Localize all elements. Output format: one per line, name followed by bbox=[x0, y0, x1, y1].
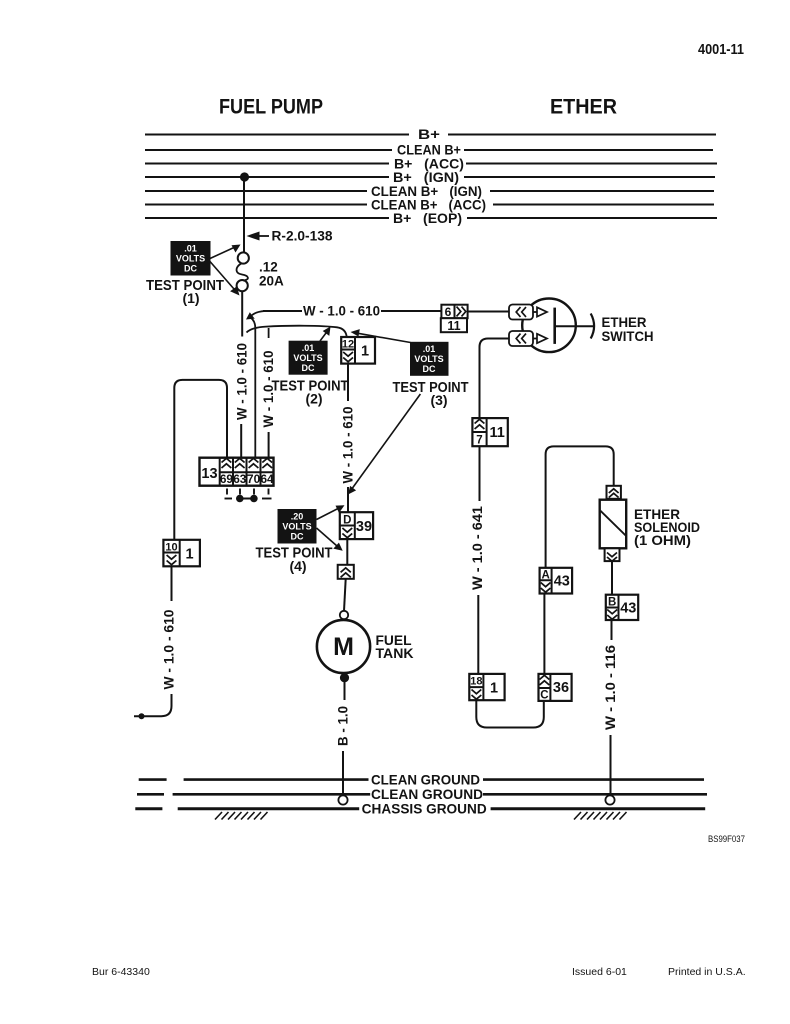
ground terminal ring (ether) bbox=[605, 795, 614, 804]
svg-text:Issued 6-01: Issued 6-01 bbox=[572, 966, 627, 978]
connector B/43 outer box bbox=[606, 595, 638, 620]
test point TP3 arrow to wire above connector D bbox=[353, 394, 421, 488]
connector 13 outer box bbox=[200, 458, 274, 486]
svg-text:.01: .01 bbox=[423, 344, 436, 354]
connector 6 cell divider bbox=[454, 305, 456, 319]
svg-text:20A: 20A bbox=[259, 274, 284, 289]
bus CLEAN B+ (ACC) wire left segment bbox=[145, 204, 367, 206]
wire W - 1.0 - 116 below connector B bbox=[611, 620, 613, 640]
svg-text:B+: B+ bbox=[418, 127, 440, 142]
connector C/36 outer box bbox=[539, 674, 572, 701]
svg-text:TANK: TANK bbox=[376, 645, 414, 661]
svg-text:DC: DC bbox=[291, 532, 304, 542]
svg-text:W - 1.0 - 116: W - 1.0 - 116 bbox=[603, 644, 618, 730]
bus B+ wire right segment bbox=[448, 134, 716, 136]
connector 13 pin 63 chevron bbox=[235, 458, 245, 468]
connector 18/1 outer box bbox=[469, 674, 504, 700]
wire below connector 10 bbox=[171, 566, 173, 601]
connector C/36 cell dividers bbox=[539, 674, 551, 701]
svg-text:DC: DC bbox=[302, 363, 315, 373]
svg-text:W - 1.0 - 610: W - 1.0 - 610 bbox=[235, 343, 250, 420]
svg-text:4001-11: 4001-11 bbox=[698, 42, 744, 58]
bus CLEAN B+ (ACC) wire right segment bbox=[493, 204, 714, 206]
svg-text:18: 18 bbox=[470, 676, 482, 688]
svg-text:13: 13 bbox=[201, 466, 217, 482]
connector 18/1 cell dividers bbox=[469, 674, 483, 700]
svg-text:SWITCH: SWITCH bbox=[602, 328, 654, 344]
svg-text:W - 1.0 - 610: W - 1.0 - 610 bbox=[340, 407, 355, 484]
svg-text:W - 1.0 - 641: W - 1.0 - 641 bbox=[470, 505, 485, 590]
fuse F1 element squiggle bbox=[236, 263, 247, 280]
ether solenoid body bbox=[600, 500, 627, 549]
bus B+ (EOP) wire right segment bbox=[467, 217, 717, 219]
svg-text:6: 6 bbox=[445, 305, 452, 319]
wire from ether switch lower flag down to connector 7 bbox=[480, 339, 510, 419]
junction tick on left tail bbox=[139, 713, 145, 719]
test point TP3 arrow to wire at connector 12 bbox=[358, 333, 411, 342]
test point TP4 arrow to wire below connector D bbox=[317, 528, 338, 546]
connector 13 pin 69 chevron bbox=[222, 458, 232, 468]
bus B+ (IGN) wire right segment bbox=[464, 176, 715, 178]
svg-text:VOLTS: VOLTS bbox=[176, 254, 205, 264]
test point TP2 black box .01 VOLTS DC bbox=[289, 341, 328, 375]
fuse F1 bottom terminal circle bbox=[237, 280, 248, 291]
svg-text:W - 1.0 - 610: W - 1.0 - 610 bbox=[303, 304, 380, 319]
junction dot on B+ (IGN) bus bbox=[240, 172, 249, 181]
inline connector chevron box (solenoid bottom) bbox=[605, 548, 620, 561]
ether solenoid diagonal element bbox=[601, 511, 626, 536]
connector 12/1 outer box bbox=[341, 337, 375, 364]
svg-text:CLEAN GROUND: CLEAN GROUND bbox=[371, 773, 480, 788]
connector 10 chevron down bbox=[167, 555, 177, 565]
test point TP2 arrow to branch wire bbox=[320, 333, 326, 341]
ground terminal ring (fuel pump) bbox=[338, 795, 347, 804]
connector A/43 cell dividers bbox=[540, 568, 552, 594]
arrowhead of W - 1.0 - 610 at main wire bbox=[246, 312, 255, 319]
wire branch from main wire to connector 12 bbox=[247, 326, 347, 338]
svg-text:.12: .12 bbox=[259, 260, 278, 275]
wire from chevron box to fuel tank motor bbox=[344, 579, 346, 611]
fuel tank motor M circle bbox=[317, 620, 370, 673]
svg-text:(2): (2) bbox=[305, 391, 322, 407]
svg-text:W - 1.0 - 610: W - 1.0 - 610 bbox=[161, 610, 176, 690]
svg-text:A: A bbox=[541, 570, 549, 582]
test point TP4 arrow to wire above connector D bbox=[317, 509, 339, 520]
bus B+ (EOP) wire left segment bbox=[145, 217, 389, 219]
connector A chevron down bbox=[541, 583, 551, 593]
wire below connector 12 bbox=[347, 364, 349, 401]
svg-text:1: 1 bbox=[361, 344, 369, 360]
svg-text:B: B bbox=[608, 597, 616, 609]
svg-text:Bur 6-43340: Bur 6-43340 bbox=[92, 966, 150, 978]
connector 10/1 cell dividers bbox=[163, 540, 179, 567]
svg-text:VOLTS: VOLTS bbox=[414, 354, 443, 364]
connector 12/1 cell dividers bbox=[341, 337, 355, 364]
connector 18 chevron down bbox=[472, 690, 482, 700]
test point TP1 black box .01 VOLTS DC bbox=[171, 241, 211, 276]
connector 10/1 outer box bbox=[163, 540, 200, 567]
wire from solenoid to connector B bbox=[611, 561, 613, 595]
svg-text:43: 43 bbox=[620, 601, 636, 617]
wire from connector 13 pin 69 loop to connector 10 bbox=[174, 380, 227, 540]
wire below fuel tank motor bbox=[344, 682, 346, 700]
svg-text:Printed in U.S.A.: Printed in U.S.A. bbox=[668, 966, 746, 978]
svg-text:D: D bbox=[343, 515, 351, 527]
wire loop from connector A over to ether solenoid bbox=[546, 446, 614, 567]
svg-text:.01: .01 bbox=[302, 343, 315, 353]
connector 6 cavity box 11 bbox=[441, 318, 467, 332]
svg-text:VOLTS: VOLTS bbox=[282, 522, 311, 532]
ether switch contact bar bbox=[553, 308, 556, 344]
connector 6 chevron right bbox=[457, 307, 466, 317]
svg-text:11: 11 bbox=[447, 319, 460, 333]
connector 13 pin 70 chevron bbox=[249, 458, 259, 468]
connector D/39 cell dividers bbox=[340, 512, 355, 539]
svg-text:10: 10 bbox=[165, 542, 177, 554]
connector 6 outer box bbox=[441, 305, 467, 319]
ether switch circle bbox=[522, 299, 576, 353]
connector 7/11 cell dividers bbox=[472, 418, 486, 446]
wire stub to connector 13 pin 64 bbox=[268, 328, 270, 338]
ether switch upper terminal flag bbox=[509, 305, 533, 320]
wire from connector 6 to ether switch upper flag bbox=[468, 311, 509, 313]
connector 7 chevron up bbox=[475, 419, 485, 429]
connector A/43 outer box bbox=[540, 568, 573, 594]
inline connector chevron box (solenoid top) bbox=[607, 486, 621, 499]
svg-text:DC: DC bbox=[423, 364, 436, 374]
bus CLEAN B+ (IGN) wire left segment bbox=[145, 190, 367, 192]
fuse F1 top terminal circle bbox=[238, 252, 249, 263]
svg-text:C: C bbox=[540, 690, 548, 702]
ether switch actuator arc bbox=[591, 314, 594, 339]
svg-text:ETHER: ETHER bbox=[550, 96, 617, 119]
svg-text:VOLTS: VOLTS bbox=[293, 353, 322, 363]
bus CLEAN B+ wire right segment bbox=[464, 149, 713, 151]
connector C chevron up bbox=[540, 675, 550, 685]
svg-text:1: 1 bbox=[490, 681, 498, 697]
fuel tank motor bottom junction dot bbox=[340, 673, 349, 682]
svg-text:11: 11 bbox=[490, 425, 505, 441]
ether switch lower terminal flag bbox=[509, 331, 533, 346]
svg-text:B+ (IGN): B+ (IGN) bbox=[393, 170, 459, 185]
ground bus CHASSIS GROUND bbox=[135, 807, 705, 810]
svg-text:M: M bbox=[333, 633, 354, 661]
chassis ground hatching left bbox=[215, 812, 268, 820]
chassis ground hatching right bbox=[574, 812, 627, 820]
ground bus CLEAN GROUND (middle) bbox=[137, 793, 707, 796]
wire from B+ (IGN) bus down to fuse bbox=[243, 177, 245, 253]
wire from connector C up to connector A bbox=[543, 594, 545, 674]
svg-text:7: 7 bbox=[476, 435, 482, 447]
ether switch actuator line bbox=[555, 325, 595, 327]
test point TP3 black box .01 VOLTS DC bbox=[410, 342, 449, 376]
connector 13 label cell 13 bbox=[219, 458, 221, 486]
inline connector chevron box (fuel pump lead) bbox=[338, 565, 354, 579]
svg-text:36: 36 bbox=[553, 680, 569, 696]
connector B chevron down bbox=[607, 610, 617, 620]
fuel tank motor top terminal circle bbox=[340, 611, 348, 619]
svg-text:FUEL PUMP: FUEL PUMP bbox=[219, 96, 323, 119]
wire below connector D bbox=[346, 539, 348, 565]
junction dot on dashed link (pin 63) bbox=[236, 495, 244, 503]
callout arrow R-2.0-138 bbox=[258, 235, 269, 237]
svg-text:63: 63 bbox=[233, 472, 247, 486]
svg-text:(1 OHM): (1 OHM) bbox=[634, 532, 691, 548]
svg-text:B+ (EOP): B+ (EOP) bbox=[393, 211, 462, 226]
wire branch down to connector 13 pin 70 bbox=[251, 318, 256, 459]
connector 13 pin cell dividers bbox=[220, 458, 274, 486]
wire U-link from connector 18 to connector C bbox=[476, 700, 544, 727]
connector B/43 cell dividers bbox=[606, 595, 619, 620]
svg-text:69: 69 bbox=[220, 472, 234, 486]
svg-text:39: 39 bbox=[356, 519, 372, 535]
svg-text:(1): (1) bbox=[182, 290, 199, 306]
ground bus CLEAN GROUND (top) bbox=[139, 778, 704, 781]
svg-text:(4): (4) bbox=[289, 558, 306, 574]
svg-text:.01: .01 bbox=[184, 244, 197, 254]
svg-text:1: 1 bbox=[185, 547, 193, 563]
test point TP1 arrow to wire below fuse bbox=[210, 262, 234, 290]
bus B+ (ACC) wire left segment bbox=[145, 163, 389, 165]
bus CLEAN B+ (IGN) wire right segment bbox=[490, 190, 714, 192]
test point TP1 arrow to wire above fuse bbox=[210, 248, 234, 259]
connector 12 chevron down bbox=[343, 352, 353, 362]
svg-text:BS99F037: BS99F037 bbox=[708, 834, 745, 845]
connector 7/11 outer box bbox=[472, 418, 507, 446]
wire W - 1.0 - 641 below connector 7 bbox=[479, 446, 481, 501]
bus B+ wire left segment bbox=[145, 134, 409, 136]
svg-text:12: 12 bbox=[342, 339, 354, 351]
test point TP4 black box .20 VOLTS DC bbox=[278, 509, 317, 544]
svg-text:CLEAN GROUND: CLEAN GROUND bbox=[371, 787, 483, 802]
bus CLEAN B+ wire left segment bbox=[145, 149, 392, 151]
svg-text:64: 64 bbox=[260, 472, 274, 486]
connector D/39 outer box bbox=[340, 512, 373, 539]
bus B+ (ACC) wire right segment bbox=[466, 163, 717, 165]
bus B+ (IGN) wire left segment bbox=[145, 176, 389, 178]
svg-text:70: 70 bbox=[247, 472, 261, 486]
junction dot on dashed link (pin 70) bbox=[250, 495, 258, 503]
svg-text:.20: .20 bbox=[291, 512, 304, 522]
svg-text:CLEAN B+: CLEAN B+ bbox=[397, 143, 461, 158]
svg-text:(3): (3) bbox=[430, 392, 447, 408]
svg-text:R-2.0-138: R-2.0-138 bbox=[272, 229, 333, 244]
wire W - 1.0 - 610 horizontal to connector 6 bbox=[263, 310, 302, 312]
connector D chevron down bbox=[342, 528, 352, 538]
wire left tail to page edge bbox=[134, 694, 172, 716]
svg-text:CHASSIS GROUND: CHASSIS GROUND bbox=[362, 802, 487, 817]
wire below fuse down to connector 13 pin 63 bbox=[241, 291, 243, 336]
svg-text:B - 1.0: B - 1.0 bbox=[335, 706, 350, 746]
svg-text:DC: DC bbox=[184, 264, 197, 274]
svg-text:43: 43 bbox=[554, 574, 570, 590]
dashed links below connector 13 bbox=[225, 489, 272, 499]
connector 13 pin 64 chevron bbox=[262, 458, 272, 468]
